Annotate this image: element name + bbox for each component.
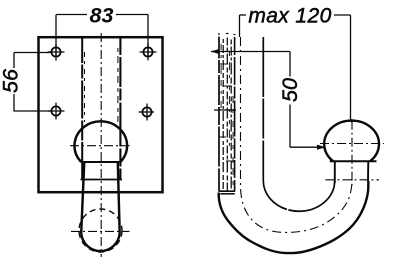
svg-text:50: 50 [278, 78, 302, 102]
svg-text:56: 56 [0, 69, 23, 93]
svg-text:83: 83 [90, 4, 114, 28]
svg-text:max 120: max 120 [248, 4, 331, 27]
